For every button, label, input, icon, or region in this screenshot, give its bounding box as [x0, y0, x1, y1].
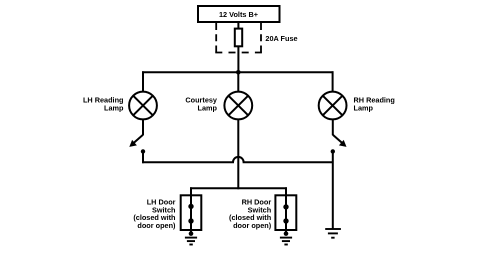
- RH lamp switch blade: [333, 135, 347, 147]
- RH door switch contacts: [283, 195, 288, 233]
- svg-text:Lamp: Lamp: [198, 104, 218, 113]
- svg-text:12 Volts B+: 12 Volts B+: [219, 10, 258, 19]
- LH lamp switch blade: [129, 135, 143, 147]
- wire fuse to top bus: [237, 46, 239, 72]
- LH reading lamp: [129, 92, 157, 120]
- LH door switch ground dot: [189, 231, 194, 236]
- fuse F1 20A: [235, 29, 242, 47]
- LH door switch box: [181, 195, 202, 230]
- svg-text:Lamp: Lamp: [104, 104, 124, 113]
- junction dot on top bus: [236, 70, 241, 75]
- wire courtesy lamp down to door switch tee: [237, 119, 239, 189]
- wire LH contact to bottom bus: [142, 151, 144, 163]
- bottom bus wire with hop over courtesy wire: [142, 157, 333, 162]
- wire bus to courtesy lamp: [237, 72, 239, 92]
- LH switch contact dot: [141, 149, 145, 153]
- LH door switch ground symbol: [185, 238, 197, 245]
- right ground symbol: [325, 229, 341, 238]
- svg-text:20A Fuse: 20A Fuse: [265, 34, 297, 43]
- svg-text:door open): door open): [233, 221, 272, 230]
- label RH Door Switch: [229, 198, 272, 230]
- RH door switch ground symbol: [280, 238, 292, 245]
- RH switch contact dot: [331, 149, 335, 153]
- LH lamp switch wire: [142, 119, 144, 135]
- RH lamp switch wire: [332, 119, 334, 135]
- wire tee to RH door switch: [285, 187, 287, 196]
- svg-text:Lamp: Lamp: [354, 104, 374, 113]
- wire tee to LH door switch: [190, 187, 192, 196]
- RH door switch ground dot: [284, 231, 289, 236]
- wire RH contact to ground: [332, 151, 334, 229]
- courtesy lamp: [224, 92, 252, 120]
- tee wire to door switches: [190, 187, 287, 189]
- svg-text:door open): door open): [137, 221, 176, 230]
- RH reading lamp: [319, 92, 347, 120]
- wire bus to RH lamp: [332, 71, 334, 92]
- battery box 12 Volts B+: [198, 6, 280, 22]
- wire battery to fuse: [237, 22, 239, 29]
- label LH Door Switch: [133, 198, 176, 230]
- RH door switch box: [275, 195, 296, 230]
- wire bus to LH lamp: [142, 71, 144, 92]
- top bus wire: [142, 71, 334, 73]
- LH door switch contacts: [188, 195, 193, 233]
- fuse holder dashed box: [215, 23, 262, 53]
